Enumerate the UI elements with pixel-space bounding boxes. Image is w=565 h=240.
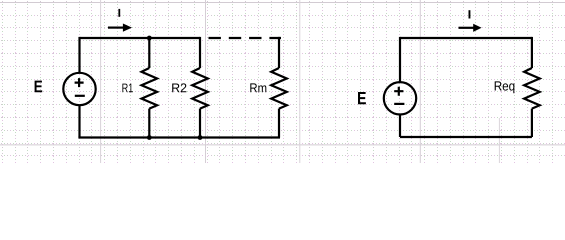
wire left vertical above source E1: [78, 37, 80, 73]
resistor R1 wire top: [148, 38, 150, 68]
resistor R2 zigzag: [192, 68, 208, 109]
plus sign of source E2: [394, 87, 403, 96]
wire top horizontal E to R2: [80, 37, 201, 39]
wire bottom horizontal right circuit: [400, 136, 532, 138]
current arrow I head right circuit: [473, 24, 481, 32]
current arrow I head left circuit: [123, 24, 132, 32]
label Rm: [250, 83, 266, 92]
minus sign of source E2: [394, 103, 404, 105]
resistor R1 zigzag: [142, 68, 158, 109]
minus sign of source E1: [75, 95, 85, 97]
resistor Rm zigzag: [271, 68, 287, 109]
resistor R2 wire bottom: [199, 109, 201, 138]
voltage source E2 circle: [384, 82, 416, 114]
resistor Req wire bottom: [531, 109, 533, 137]
plus sign of source E1: [75, 78, 84, 87]
junction dot R2 bottom: [198, 135, 203, 140]
junction dot R1 bottom: [147, 135, 152, 140]
resistor R1 wire bottom: [148, 109, 150, 138]
wire left vertical below source E2: [399, 114, 401, 137]
resistor Rm wire bottom: [278, 109, 280, 138]
wire left vertical above source E2: [399, 37, 401, 82]
wire dashed top R2 to Rm: [209, 37, 282, 39]
junction dot R1 top: [147, 36, 152, 41]
voltage source E1 circle: [63, 73, 95, 105]
label E left source: [35, 81, 43, 93]
major grid line vertical 3: [299, 0, 301, 163]
wire left vertical below source E1: [78, 105, 80, 138]
major grid line vertical 5: [498, 118, 500, 163]
label R1: [122, 84, 132, 93]
major grid line vertical 1: [100, 0, 102, 163]
major grid line horizontal lower: [0, 144, 565, 146]
wire top horizontal right circuit: [400, 37, 532, 39]
label E right source: [358, 92, 366, 104]
label I right current: [469, 10, 471, 18]
current arrow I shaft right circuit: [459, 27, 475, 29]
resistor R2 wire top: [199, 37, 201, 68]
major grid line vertical 4: [419, 0, 421, 163]
label I left current: [118, 9, 120, 17]
resistor Req zigzag: [524, 68, 540, 109]
label R2: [172, 83, 186, 92]
resistor Req wire top: [531, 37, 533, 68]
label Req: [495, 81, 515, 93]
current arrow I shaft left circuit: [108, 27, 124, 29]
wire bottom horizontal: [78, 136, 280, 138]
resistor Rm wire top: [278, 37, 280, 68]
major grid line horizontal top: [0, 2, 565, 4]
major grid line vertical 2: [205, 0, 207, 163]
